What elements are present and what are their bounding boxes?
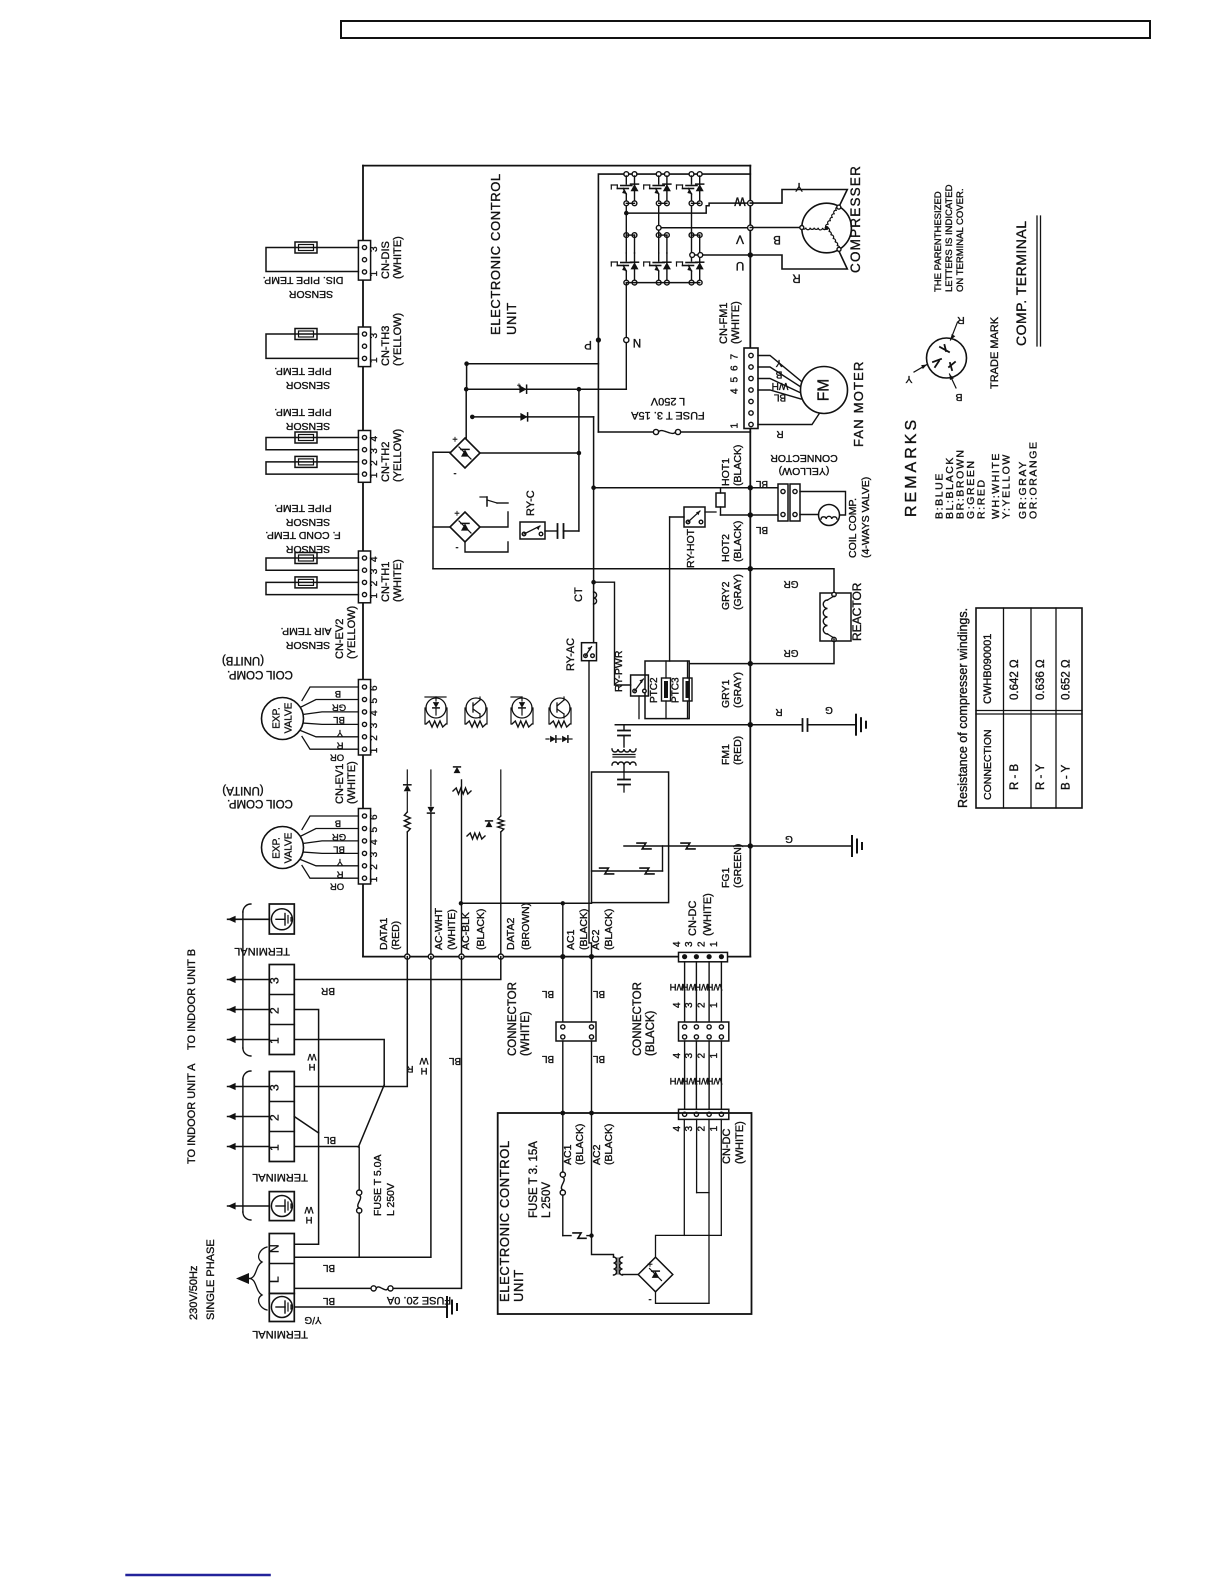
svg-text:1: 1 [369,271,380,277]
capacitor above transformer [623,725,625,730]
relay RY-PWR bottom lead [638,696,640,719]
wire AC2 to indoor [591,957,593,1022]
diode bridge DB2 [450,512,480,542]
zener diode [404,785,411,791]
wires connector black to CN-DC white [684,1041,686,1109]
svg-text:PIPE TEMP.: PIPE TEMP. [274,406,331,418]
svg-text:PIPE TEMP.: PIPE TEMP. [274,502,331,514]
svg-text:B: B [775,369,782,380]
svg-text:(GRAY): (GRAY) [732,574,744,610]
junction DATA2 [498,954,503,959]
junction FM1 on bus [748,722,753,727]
svg-text:CONNECTOR: CONNECTOR [632,982,644,1056]
svg-text:1: 1 [369,472,380,478]
svg-text:B: B [335,688,341,699]
svg-text:BR: BR [321,985,335,996]
vertical CT/RY-AC line [593,417,595,643]
svg-text:AC-WHT: AC-WHT [433,907,445,950]
svg-text:BL: BL [592,1053,605,1064]
junction GRY2 on bus [748,566,753,571]
svg-text:(RED): (RED) [732,736,744,765]
wire B3 BR to DATA2 [294,957,501,980]
branch to RY-PWR box [594,582,631,685]
svg-text:2: 2 [697,1002,708,1008]
svg-text:7: 7 [730,354,741,360]
wire FM1 to capacitor and ground [750,724,801,726]
svg-text:3: 3 [268,1084,282,1091]
svg-text:U: U [736,259,745,273]
fuse T 5.0A [358,1147,360,1190]
vertical link right of bridges [578,389,580,531]
svg-text:AC1: AC1 [562,1144,574,1165]
svg-text:4: 4 [672,941,683,947]
wires CN-DC to connector black [684,962,686,1022]
connector CN-TH1 [358,551,370,603]
relay RY-AC [582,643,597,661]
relay RY-HOT [684,507,705,527]
svg-text:ON TERMINAL COVER.: ON TERMINAL COVER. [955,189,966,292]
svg-text:0.642 Ω: 0.642 Ω [1009,659,1021,700]
svg-text:SENSOR: SENSOR [285,639,330,651]
svg-text:2: 2 [369,735,380,741]
svg-text:(RED): (RED) [390,921,402,950]
svg-text:BL: BL [592,988,605,999]
svg-text:WH: WH [706,981,722,992]
reactor box [820,593,851,641]
svg-text:5: 5 [369,698,380,704]
indoor electronic control unit box [498,1113,752,1314]
svg-text:4: 4 [672,1126,683,1132]
svg-text:COMPRESSER: COMPRESSER [848,165,863,273]
svg-text:4: 4 [672,1002,683,1008]
svg-text:BL: BL [333,714,345,725]
wire GRY1 into ECU [689,663,750,665]
diode on wire 1 [519,385,526,393]
opto coupler 2 [466,698,486,708]
svg-text:CONNECTION: CONNECTION [982,729,994,800]
inverter block box [598,174,750,432]
svg-text:1: 1 [730,423,741,429]
terminal block to indoor unit A [269,1072,294,1162]
wire B2 to N [294,1010,318,1245]
svg-text:4: 4 [369,556,380,562]
ground symbol FG1 [851,836,853,856]
svg-text:(WHITE): (WHITE) [392,236,404,279]
wire HOT1 to connector yellow [750,487,778,489]
svg-text:OR: OR [330,752,344,763]
vertical AC-BLK internal [461,780,463,957]
node N [624,337,629,342]
svg-text:EXP.: EXP. [272,837,283,859]
filter transformer [612,749,636,752]
svg-text:CN-TH1: CN-TH1 [380,562,392,602]
sensor loop TH3 [266,334,358,358]
diode small 2 [428,807,435,813]
resistor horizontal small [453,788,471,794]
svg-text:TRADE MARK: TRADE MARK [989,316,1001,389]
svg-text:1: 1 [709,941,720,947]
svg-text:3: 3 [369,246,380,252]
svg-text:4: 4 [369,710,380,716]
wires connector white down to indoor unit [562,1041,564,1113]
wire FM1 [615,724,750,726]
connector CN-TH3 [358,327,370,367]
svg-text:2: 2 [697,941,708,947]
wire RY-HOT coil down [670,516,684,518]
capacitor on FM1 ground wire [802,719,804,731]
svg-text:(WHITE): (WHITE) [392,559,404,602]
svg-text:Y:YELLOW: Y:YELLOW [1001,453,1013,519]
surge arrester Z3 [600,868,614,874]
svg-text:H: H [420,1065,427,1076]
svg-text:(GRAY): (GRAY) [732,672,744,708]
svg-text:TERMINAL: TERMINAL [234,945,290,957]
svg-text:BL: BL [773,392,786,403]
svg-text:W: W [734,195,746,209]
wire V phase [659,227,748,229]
sensor loop DIS [266,248,358,272]
svg-text:PIPE TEMP.: PIPE TEMP. [274,365,331,377]
svg-text:AIR TEMP.: AIR TEMP. [281,625,332,637]
svg-text:REMARKS: REMARKS [903,417,920,517]
svg-text:N: N [268,1244,282,1253]
fuse line with FUSE T 3.15A [598,431,653,433]
svg-text:Y: Y [905,373,912,385]
svg-text:EXP.: EXP. [272,707,283,729]
wire AC-BLK cross link [461,902,592,904]
svg-text:SENSOR: SENSOR [285,543,330,555]
svg-text:V: V [736,233,744,247]
junction DATA1 [405,954,410,959]
resistor to RY-HOT [720,488,722,493]
PTC3 thermistor [683,678,692,701]
svg-text:W: W [419,1055,428,1066]
svg-text:2: 2 [697,1053,708,1059]
wire AC1 up into filter [562,903,564,956]
svg-text:GR: GR [784,647,799,658]
svg-text:FUSE T 5.0A: FUSE T 5.0A [372,1155,384,1216]
title strip box [341,21,1150,38]
svg-text:B: B [773,233,781,245]
svg-text:(BLACK): (BLACK) [603,909,615,950]
svg-text:R: R [336,740,343,751]
compressor terminal Y [837,205,841,209]
svg-text:COIL COMP.: COIL COMP. [227,668,293,680]
svg-text:(WHITE): (WHITE) [730,301,742,344]
svg-text:FM1: FM1 [720,744,732,765]
svg-text:COIL COMP.: COIL COMP. [227,797,293,809]
svg-text:R - B: R - B [1009,763,1021,790]
diode bridge DB1 [450,438,480,468]
thermistor TH2 lower [295,456,317,467]
svg-text:0.636 Ω: 0.636 Ω [1035,659,1047,700]
resistor horizontal small 2 [467,833,485,839]
svg-text:1: 1 [369,876,380,882]
svg-text:4: 4 [672,1053,683,1059]
svg-text:Y: Y [336,856,343,867]
earth cell power [269,1294,294,1322]
surge row 2 wire [592,870,663,872]
svg-text:(WHITE): (WHITE) [346,761,358,804]
connector (YELLOW) block [778,484,788,521]
svg-text:BL: BL [322,1262,335,1273]
diode small 3 [486,821,493,827]
wire GRY1 to reactor [750,640,834,664]
earth terminal below A [269,1192,294,1221]
indoor CN-DC wires down [683,1119,685,1235]
cable line A [242,1079,244,1212]
outdoor electronic control unit box [363,165,750,167]
junction V on bus [748,225,753,230]
svg-text:(WHITE): (WHITE) [520,1011,532,1056]
svg-text:(4-WAYS VALVE): (4-WAYS VALVE) [860,477,872,558]
svg-text:TO INDOOR UNIT A: TO INDOOR UNIT A [186,1063,198,1164]
igbt chopper above DB2 [480,512,508,527]
svg-text:CN-EV2: CN-EV2 [334,619,346,659]
svg-text:GR: GR [332,831,346,842]
sensor loop TH2 lower [266,462,358,474]
thermistor F COND sensor [295,553,317,564]
vertical DATA1 internal [406,792,408,812]
svg-text:CWHB090001: CWHB090001 [982,634,994,704]
svg-text:3: 3 [369,722,380,728]
svg-text:WH: WH [772,380,789,391]
opto coupler 4 [550,698,570,708]
surge arrester Z2 [681,843,695,849]
svg-text:DATA1: DATA1 [378,918,390,950]
svg-text:L 250V: L 250V [650,395,685,407]
svg-text:R: R [336,869,343,880]
svg-text:AC2: AC2 [591,1144,603,1165]
svg-text:R - Y: R - Y [1035,764,1047,790]
junction U on bus [748,252,753,257]
svg-text:REACTOR: REACTOR [850,582,864,641]
svg-text:+: + [452,434,457,444]
svg-text:THE PARENTHESIZED: THE PARENTHESIZED [933,191,944,292]
svg-text:SENSOR: SENSOR [285,516,330,528]
svg-text:BL: BL [755,524,768,535]
svg-text:(YELLOW): (YELLOW) [779,465,830,477]
indoor diode bridge [638,1257,673,1292]
junction HOT2 on bus [748,512,753,517]
connector CN-FM1 [744,348,758,429]
bridge B1 feed wires [433,451,450,453]
svg-text:B - Y: B - Y [1061,764,1073,790]
svg-text:1: 1 [709,1053,720,1059]
svg-text:L 250V: L 250V [385,1183,397,1216]
svg-text:ELECTRONIC CONTROL: ELECTRONIC CONTROL [488,173,503,335]
earth terminal above B [269,904,294,934]
svg-text:VALVE: VALVE [284,702,295,733]
exp valve circle CN-EV2 [262,698,304,740]
svg-text:G: G [825,704,833,715]
svg-text:2: 2 [369,460,380,466]
svg-text:(BLACK): (BLACK) [645,1010,657,1056]
svg-text:R: R [792,272,800,284]
connector CN-DC (WHITE) on indoor box [679,1109,729,1119]
surge arrester Z1 [637,843,651,849]
svg-text:LETTERS IS INDICATED: LETTERS IS INDICATED [944,184,955,292]
svg-text:1: 1 [268,1144,282,1151]
relay RY-C [520,522,545,539]
svg-text:CN-TH2: CN-TH2 [380,442,392,482]
svg-text:FM: FM [816,379,833,401]
capacitor after RY-C [545,530,557,532]
svg-text:-: - [648,1294,651,1305]
svg-text:RY-C: RY-C [525,490,537,516]
resistor under opto 4 [550,721,570,727]
svg-text:W: W [307,1051,316,1062]
svg-text:CN-FM1: CN-FM1 [718,302,730,344]
svg-text:4: 4 [730,388,741,394]
svg-text:R: R [406,1063,413,1074]
wires CN-FM1 to fan motor [758,356,801,382]
svg-text:SINGLE PHASE: SINGLE PHASE [205,1239,217,1320]
igbt lower 2 [656,233,661,238]
inverter column links and rails [625,206,627,235]
sensor loop TH2 upper [266,438,358,450]
svg-text:CONNECTOR: CONNECTOR [507,982,519,1056]
wire compressor V to B terminal [750,227,802,229]
svg-text:P: P [584,338,592,350]
sensor loop TH1 lower [266,582,358,594]
svg-text:(YELLOW): (YELLOW) [392,429,404,482]
wire HOT2 to connector yellow [750,514,778,516]
wire A3 R to DATA1 [294,957,407,1087]
svg-text:(BLACK): (BLACK) [732,521,744,562]
svg-text:5: 5 [369,827,380,833]
svg-text:3: 3 [369,448,380,454]
svg-text:Y: Y [336,727,343,738]
svg-text:(UNITA): (UNITA) [222,784,263,796]
PTC2 thermistor [662,678,671,701]
indoor AC2 wire [591,1113,593,1236]
svg-text:R: R [957,314,965,326]
indoor transformer [614,1257,617,1275]
svg-text:6: 6 [369,685,380,691]
vertical AC-WHT internal [430,814,432,957]
thermistor TH2 upper [295,432,317,443]
svg-text:4: 4 [369,839,380,845]
compressor terminal R [837,247,841,251]
diode small 1 [454,767,461,773]
resistor vertical 1 [404,812,410,832]
svg-text:R: R [776,428,783,439]
indoor wire to transformer [592,1236,614,1257]
wire pin1 to fan motor [758,411,821,425]
svg-text:1: 1 [369,357,380,363]
wire compressor W to Y terminal [750,190,847,208]
indoor bridge output wires [656,1235,722,1257]
wire DB1 right [480,452,579,454]
svg-text:F. COND TEMP.: F. COND TEMP. [265,529,340,541]
svg-text:BL: BL [541,988,554,999]
svg-text:W: W [304,1204,313,1215]
arrow earth B [228,918,270,920]
svg-text:BL: BL [323,1134,336,1145]
svg-text:Y/G: Y/G [304,1314,321,1325]
svg-text:(WHITE): (WHITE) [446,909,458,950]
svg-text:2: 2 [369,864,380,870]
igbt upper 2 [656,172,661,177]
resistor under opto 3 [512,721,532,727]
svg-text:(BLACK): (BLACK) [603,1124,615,1165]
svg-text:3: 3 [684,1002,695,1008]
footer line [127,1574,270,1576]
svg-text:CT: CT [573,587,585,602]
svg-text:H: H [308,1061,315,1072]
svg-text:(YELLOW): (YELLOW) [346,606,358,659]
svg-text:VALVE: VALVE [284,832,295,863]
terminal marks inside trade mark circle [940,347,949,352]
wire with diode 2 [472,416,593,418]
svg-text:1: 1 [268,1037,282,1044]
svg-text:PTC3: PTC3 [671,677,682,703]
wire W phase [626,203,748,213]
opto coupler 1 [426,698,446,708]
cable line B [242,912,244,1048]
junction AC2 [589,954,594,959]
wire compressor U to R terminal [750,251,847,269]
connector CONNECTOR (WHITE) [556,1022,596,1041]
wire GRY2 to reactor [750,569,834,592]
thermistor DIS PIPE sensor [295,242,317,253]
thermistor PIPE TEMP sensor [295,329,317,340]
wire FG1 [624,845,750,847]
compressor motor circle [802,203,852,253]
wire B1 BL down [294,1040,384,1085]
svg-text:BL: BL [541,1053,554,1064]
wire N to AC-WHT [294,957,431,1258]
svg-text:GR: GR [332,702,346,713]
CT symbol [594,592,597,604]
junction HOT1 on bus [748,485,753,490]
wire earth to ground [294,1306,447,1308]
svg-text:1: 1 [709,1002,720,1008]
svg-text:CONNECTOR: CONNECTOR [770,452,838,464]
wire P [467,363,599,365]
sub-box left rail [432,452,434,568]
svg-text:Y: Y [795,180,803,192]
svg-text:2: 2 [268,1114,282,1121]
svg-text:6: 6 [369,814,380,820]
svg-text:TO INDOOR UNIT B: TO INDOOR UNIT B [186,949,198,1050]
svg-text:(YELLOW): (YELLOW) [392,313,404,366]
svg-text:(BLACK): (BLACK) [732,445,744,486]
svg-text:CN-EV1: CN-EV1 [334,764,346,804]
power feed arrow [236,1273,249,1284]
connector CN-TH2 [358,431,370,483]
resistance table [976,608,1082,808]
igbt lower 1 [624,233,629,238]
connector CN-DC on ECU bottom edge [679,952,728,961]
svg-text:G: G [785,833,793,844]
svg-text:3: 3 [684,941,695,947]
connector CN-EV1 [358,809,370,885]
svg-text:(WHITE): (WHITE) [702,893,714,936]
svg-text:CN-DC: CN-DC [721,1129,733,1164]
svg-text:-: - [456,543,459,553]
terminal block to indoor unit B [269,965,294,1055]
svg-text:R:RED: R:RED [976,478,988,519]
svg-text:RY-AC: RY-AC [565,638,577,671]
svg-text:FG1: FG1 [720,867,732,888]
svg-text:SENSOR: SENSOR [285,420,330,432]
arrows terminal B [228,979,270,981]
junction W on bus [748,200,753,205]
svg-text:AC-BLK: AC-BLK [460,912,472,950]
wire HOT1 [594,487,751,489]
